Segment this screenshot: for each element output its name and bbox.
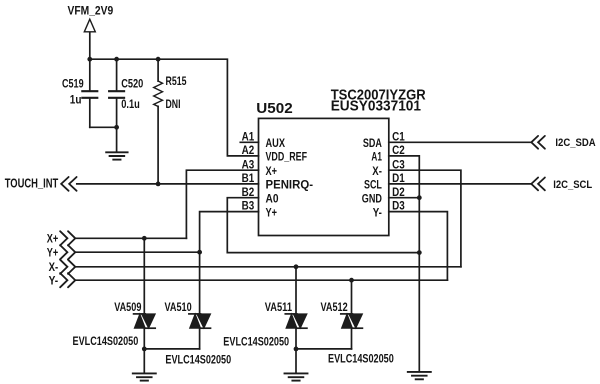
diode VA511 TVS xyxy=(285,267,307,349)
wire VA511 to ground xyxy=(295,349,297,373)
port chevrons X- xyxy=(60,260,75,274)
svg-text:PENIRQ-: PENIRQ- xyxy=(266,178,314,192)
svg-text:TOUCH_INT: TOUCH_INT xyxy=(5,177,59,191)
wire X- pin C3 xyxy=(389,170,461,267)
svg-text:EVLC14S02050: EVLC14S02050 xyxy=(165,355,231,367)
node junction GND-A0 xyxy=(417,250,422,255)
svg-text:VA512: VA512 xyxy=(321,302,348,314)
resistor R515 xyxy=(154,59,163,184)
svg-text:C3: C3 xyxy=(392,159,405,171)
svg-text:0.1u: 0.1u xyxy=(121,99,140,111)
wire Y+ pin B3 xyxy=(200,212,259,253)
svg-text:AUX: AUX xyxy=(266,136,286,150)
svg-text:EVLC14S02050: EVLC14S02050 xyxy=(223,336,289,348)
wire GND pin D2 xyxy=(389,197,420,199)
node junction rail-R515 xyxy=(156,57,161,62)
port chevrons I2C_SDA xyxy=(531,136,545,149)
svg-text:GND: GND xyxy=(362,191,382,205)
svg-text:X+: X+ xyxy=(47,232,59,246)
wire VA511-VA512 cathode join xyxy=(296,348,352,350)
wire VA509-VA510 cathode join xyxy=(144,348,199,350)
diode VA510 TVS xyxy=(189,252,211,349)
svg-text:A1: A1 xyxy=(371,150,382,164)
wire SCL pin D1 to I2C_SCL xyxy=(389,183,532,185)
capacitor C520 xyxy=(109,59,124,151)
svg-text:C2: C2 xyxy=(392,145,405,157)
node junction caps join xyxy=(114,125,119,130)
wire Y+ input line xyxy=(76,251,200,253)
wire X+ input line xyxy=(76,237,187,239)
node junction GND-D2 xyxy=(417,195,422,200)
svg-text:Y+: Y+ xyxy=(266,205,278,219)
svg-text:D2: D2 xyxy=(392,187,405,199)
svg-text:DNI: DNI xyxy=(166,99,181,111)
IC U502 body xyxy=(259,118,389,235)
svg-text:A1: A1 xyxy=(242,131,255,143)
svg-text:R515: R515 xyxy=(166,76,187,88)
svg-text:Y-: Y- xyxy=(373,205,382,219)
svg-text:C519: C519 xyxy=(62,78,84,90)
svg-text:VA510: VA510 xyxy=(165,302,192,314)
svg-text:VDD_REF: VDD_REF xyxy=(266,150,308,164)
svg-text:SDA: SDA xyxy=(363,136,382,150)
svg-text:I2C_SCL: I2C_SCL xyxy=(553,179,592,191)
diode VA512 TVS xyxy=(341,280,363,349)
ground below VA511 xyxy=(285,373,308,380)
svg-text:D1: D1 xyxy=(392,173,405,185)
svg-text:C520: C520 xyxy=(121,78,143,90)
port chevrons Y+ xyxy=(60,245,75,259)
node junction X+ diode tap xyxy=(142,236,147,241)
svg-text:SCL: SCL xyxy=(364,178,382,192)
svg-text:D3: D3 xyxy=(392,201,405,213)
svg-text:B3: B3 xyxy=(242,201,255,213)
port chevrons I2C_SCL xyxy=(531,178,545,191)
node junction VA509 ground xyxy=(142,347,147,352)
svg-text:A3: A3 xyxy=(242,159,255,171)
ground right of GND net xyxy=(408,372,431,379)
port chevrons TOUCH_INT xyxy=(61,177,76,191)
svg-text:X-: X- xyxy=(372,164,382,178)
power flag VFM_2V9 xyxy=(84,19,95,59)
wire TOUCH_INT to pin B1 xyxy=(77,183,259,185)
svg-text:VA509: VA509 xyxy=(114,302,141,314)
node junction Y- diode tap xyxy=(349,278,354,283)
wire X+ pin A3 xyxy=(186,170,258,238)
svg-text:EVLC14S02050: EVLC14S02050 xyxy=(328,354,394,366)
svg-text:B2: B2 xyxy=(242,187,255,199)
svg-text:1u: 1u xyxy=(70,95,82,107)
node junction VA511 ground xyxy=(294,347,299,352)
svg-text:U502: U502 xyxy=(256,100,292,117)
wire VFM_2V9 rail to A2 pin xyxy=(90,59,259,156)
diode VA509 TVS xyxy=(134,238,156,349)
port chevrons X+ xyxy=(60,231,75,245)
svg-text:A2: A2 xyxy=(242,145,255,157)
node junction X- diode tap xyxy=(294,264,299,269)
ground below VA509 xyxy=(133,373,156,380)
svg-text:I2C_SDA: I2C_SDA xyxy=(555,137,595,149)
port chevrons Y- xyxy=(60,273,75,287)
wire C519 to C520 bottom join xyxy=(90,126,117,128)
node junction R515-TOUCH_INT xyxy=(156,182,161,187)
svg-text:B1: B1 xyxy=(242,173,255,185)
wire A1 pin C2 to GND vertical xyxy=(389,156,420,371)
wire AUX stub pin A1 xyxy=(240,141,258,143)
svg-text:A0: A0 xyxy=(266,191,279,205)
svg-text:VFM_2V9: VFM_2V9 xyxy=(68,6,114,18)
svg-text:Y+: Y+ xyxy=(47,246,59,260)
svg-text:Y-: Y- xyxy=(49,274,59,288)
ground below C520 xyxy=(106,152,127,159)
wire SDA pin C1 to I2C_SDA xyxy=(389,141,532,143)
wire VA509 to ground xyxy=(143,349,145,373)
svg-text:VA511: VA511 xyxy=(265,302,293,314)
svg-text:X+: X+ xyxy=(266,164,278,178)
capacitor C519 xyxy=(82,59,97,127)
svg-text:C1: C1 xyxy=(392,131,405,143)
node junction rail-C520 xyxy=(114,57,119,62)
svg-text:EUSY0337101: EUSY0337101 xyxy=(331,98,421,115)
wire Y- pin D3 xyxy=(389,212,448,281)
wire Y- input line xyxy=(76,279,448,281)
node junction Y+ pin and diode xyxy=(197,250,202,255)
svg-text:EVLC14S02050: EVLC14S02050 xyxy=(73,336,139,348)
node junction rail-C519 xyxy=(87,57,92,62)
svg-text:X-: X- xyxy=(49,260,59,274)
wire A0 pin B2 to GND net xyxy=(227,198,419,253)
wire X- input line xyxy=(76,266,461,268)
